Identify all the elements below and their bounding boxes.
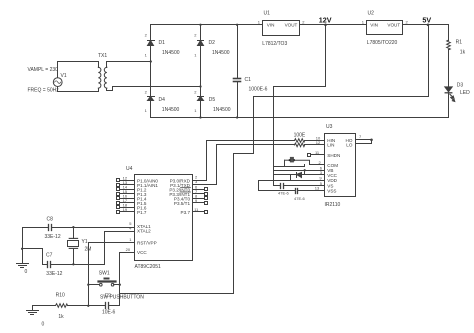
svg-text:VIN: VIN bbox=[267, 23, 275, 28]
svg-text:C8: C8 bbox=[47, 217, 54, 223]
node D5 bottom bbox=[199, 116, 201, 118]
node SW1 right bbox=[119, 284, 121, 286]
AC source V1 bbox=[53, 78, 62, 87]
wire top rail bbox=[151, 24, 263, 26]
svg-text:R1: R1 bbox=[456, 39, 463, 45]
transformer TX1 bbox=[98, 67, 107, 88]
wire U1 out bbox=[301, 24, 367, 26]
svg-text:47E-6: 47E-6 bbox=[278, 191, 289, 196]
svg-text:D4: D4 bbox=[159, 97, 166, 103]
resistor 100E HIN bbox=[207, 139, 325, 143]
diode D4 bbox=[148, 97, 155, 118]
svg-text:U2: U2 bbox=[368, 10, 375, 16]
wire RST net bbox=[89, 243, 135, 306]
svg-text:LED: LED bbox=[460, 90, 470, 96]
svg-text:19: 19 bbox=[123, 207, 128, 212]
svg-text:L7812/TO3: L7812/TO3 bbox=[262, 41, 287, 47]
MCU U4 bbox=[135, 175, 193, 261]
switch SW1 bbox=[89, 279, 120, 287]
svg-text:13: 13 bbox=[315, 186, 320, 191]
capacitor 10E-6 bbox=[89, 303, 120, 309]
svg-text:1000E-6: 1000E-6 bbox=[249, 87, 268, 93]
svg-text:SW1: SW1 bbox=[99, 271, 110, 277]
svg-text:D5: D5 bbox=[209, 97, 216, 103]
node RST bottom bbox=[87, 305, 89, 307]
resistor R10 bbox=[33, 304, 89, 308]
svg-text:20: 20 bbox=[126, 247, 131, 252]
svg-text:U4: U4 bbox=[126, 166, 133, 172]
svg-text:TX1: TX1 bbox=[98, 53, 107, 59]
node Y1 bottom bbox=[72, 263, 74, 265]
wire D1-D4 bbox=[150, 62, 152, 97]
svg-text:5V: 5V bbox=[422, 16, 431, 25]
wire XTAL1 net bbox=[52, 227, 135, 229]
gate driver U3 bbox=[325, 134, 356, 197]
svg-text:1N4500: 1N4500 bbox=[212, 50, 230, 56]
svg-text:VSS: VSS bbox=[327, 188, 336, 193]
wire TXD riser bbox=[193, 145, 217, 185]
node rail D2 top bbox=[199, 24, 201, 26]
svg-text:VCC: VCC bbox=[327, 173, 337, 178]
node C1 bottom bbox=[236, 116, 238, 118]
svg-text:C7: C7 bbox=[46, 252, 53, 258]
svg-text:P3.7: P3.7 bbox=[181, 210, 191, 215]
wire VCC riser bbox=[120, 253, 135, 306]
svg-text:12: 12 bbox=[316, 140, 321, 145]
svg-text:VOUT: VOUT bbox=[387, 23, 400, 28]
resistor 100E LIN bbox=[217, 143, 325, 147]
ferrite bead bbox=[285, 157, 325, 167]
svg-text:XTAL2: XTAL2 bbox=[137, 229, 151, 234]
svg-text:P1.7: P1.7 bbox=[137, 210, 147, 215]
diode D2 bbox=[198, 25, 204, 87]
svg-text:V1: V1 bbox=[61, 73, 67, 79]
ground (reset) bbox=[27, 306, 39, 315]
svg-text:VCC: VCC bbox=[137, 250, 147, 255]
svg-text:1k: 1k bbox=[460, 50, 466, 56]
node secondary-to-bridge bbox=[150, 60, 152, 62]
wire VDD bbox=[259, 180, 325, 182]
svg-text:U1: U1 bbox=[264, 10, 271, 16]
svg-text:Y1: Y1 bbox=[82, 239, 88, 245]
svg-text:VDD: VDD bbox=[327, 178, 337, 183]
ground (crystal) bbox=[17, 228, 29, 268]
node SW1 left bbox=[87, 284, 89, 286]
svg-text:2M: 2M bbox=[85, 247, 92, 253]
wire primary bottom bbox=[58, 87, 99, 92]
regulator U1 bbox=[263, 21, 300, 36]
LED D3 bbox=[445, 87, 455, 118]
svg-text:SHDN: SHDN bbox=[327, 153, 340, 158]
wire ground rail bbox=[151, 117, 449, 119]
diode D1 bbox=[148, 25, 155, 62]
wire ground branch bbox=[23, 249, 43, 265]
P1 port pins bbox=[117, 175, 159, 215]
wire U2 out bbox=[403, 24, 449, 26]
svg-text:D2: D2 bbox=[209, 40, 216, 46]
svg-text:LIN: LIN bbox=[327, 143, 334, 148]
wire crystal bottom bbox=[52, 264, 105, 266]
wire 12V feed bbox=[274, 25, 326, 186]
wire primary top bbox=[58, 62, 99, 78]
node D2-D5 bbox=[199, 85, 201, 87]
capacitor C7 bbox=[43, 262, 51, 268]
wire secondary bottom bbox=[107, 87, 201, 91]
svg-text:FREQ = 50Hz: FREQ = 50Hz bbox=[28, 87, 60, 93]
SHDN terminal bbox=[308, 154, 325, 157]
node rail C1 top bbox=[236, 24, 238, 26]
regulator U2 bbox=[367, 21, 403, 35]
wire HO LO bracket bbox=[356, 139, 373, 144]
svg-text:RST/VPP: RST/VPP bbox=[137, 240, 157, 245]
svg-text:L7805/TO220: L7805/TO220 bbox=[367, 40, 398, 46]
crystal Y1 bbox=[68, 228, 79, 265]
svg-text:1N4500: 1N4500 bbox=[162, 50, 180, 56]
svg-text:12V: 12V bbox=[319, 16, 332, 25]
wire 5V feed bbox=[120, 25, 429, 294]
svg-text:C1: C1 bbox=[245, 77, 252, 83]
node XTAL1 Y1 bbox=[72, 226, 74, 228]
svg-text:1N4500: 1N4500 bbox=[162, 107, 180, 113]
svg-text:U3: U3 bbox=[326, 124, 333, 130]
svg-text:1N4500: 1N4500 bbox=[213, 107, 231, 113]
svg-text:C9: C9 bbox=[105, 293, 112, 299]
svg-text:D3: D3 bbox=[457, 83, 464, 89]
svg-text:VOUT: VOUT bbox=[285, 23, 298, 28]
svg-text:0: 0 bbox=[42, 322, 45, 328]
svg-text:VIN: VIN bbox=[370, 23, 378, 28]
capacitor 47E-6 VSS bbox=[259, 181, 325, 194]
bootstrap diode bbox=[274, 173, 325, 181]
wire XTAL2 net bbox=[105, 232, 135, 265]
svg-text:47E-6: 47E-6 bbox=[294, 196, 305, 201]
svg-text:33E-12: 33E-12 bbox=[45, 234, 61, 240]
svg-text:33E-12: 33E-12 bbox=[46, 271, 62, 277]
capacitor C8 bbox=[23, 225, 52, 231]
svg-text:AT89C2051: AT89C2051 bbox=[135, 264, 162, 270]
svg-text:D1: D1 bbox=[159, 40, 166, 46]
svg-text:LO: LO bbox=[346, 143, 353, 148]
svg-text:IR2110: IR2110 bbox=[325, 202, 341, 208]
diode D5 bbox=[198, 87, 204, 118]
wire secondary top bbox=[107, 62, 151, 68]
svg-text:COM: COM bbox=[327, 163, 338, 168]
svg-text:1k: 1k bbox=[58, 314, 64, 320]
node 12V bbox=[324, 24, 327, 27]
svg-text:100E: 100E bbox=[294, 132, 306, 138]
wire RXD riser bbox=[193, 141, 207, 181]
wire VB bbox=[274, 170, 325, 172]
svg-text:R10: R10 bbox=[56, 292, 65, 298]
wire COM lower bbox=[274, 165, 305, 167]
svg-text:P3.5/T1: P3.5/T1 bbox=[174, 201, 191, 206]
P3 port pins bbox=[169, 174, 207, 215]
node 5V bbox=[427, 24, 430, 27]
svg-text:0: 0 bbox=[25, 269, 28, 275]
resistor R1 bbox=[447, 25, 451, 87]
capacitor 47E-6 VS bbox=[274, 184, 325, 189]
svg-text:VAMPL = 230: VAMPL = 230 bbox=[28, 67, 59, 73]
svg-text:10E-6: 10E-6 bbox=[102, 309, 116, 315]
capacitor C1 bbox=[234, 25, 241, 118]
